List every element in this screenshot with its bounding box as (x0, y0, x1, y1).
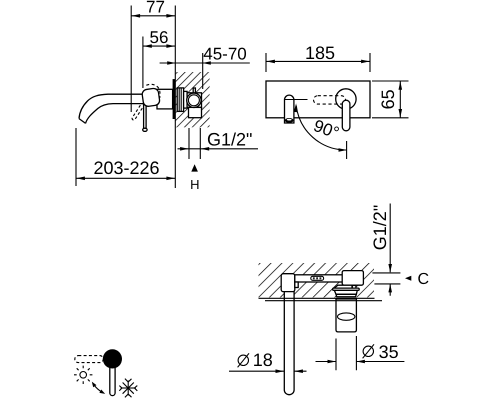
svg-text:35: 35 (379, 342, 399, 362)
extension line x=143 (56 dim) (142, 37, 144, 89)
spout tube (plan) (284, 292, 294, 395)
valve cartridge housing (187, 93, 201, 108)
spout (side view) (79, 94, 145, 118)
wall plate front (266, 81, 370, 118)
C dimension extension lines (372, 273, 400, 284)
lever base band 3 (336, 294, 356, 297)
bar detail plate (311, 276, 324, 280)
pictogram dashed handle (horizontal) (75, 356, 104, 363)
dimension D35 lines (316, 361, 405, 363)
lever end position tick (346, 141, 348, 159)
svg-text:56: 56 (150, 28, 169, 47)
body bar (plan) (295, 275, 345, 282)
handle box (plan) (342, 271, 363, 286)
svg-text:45-70: 45-70 (203, 45, 246, 64)
valve flange ring B (184, 91, 188, 108)
C arrow (405, 276, 411, 281)
valve lower body (189, 107, 202, 117)
handle flange circle (front) (336, 89, 356, 109)
dimension 185 extension lines (266, 53, 370, 72)
svg-text:H: H (190, 177, 199, 192)
dimension 56 line (143, 45, 175, 47)
hot supply marker triangle (191, 164, 198, 171)
dimension D18 lines (229, 370, 307, 372)
lever base band 2 (334, 290, 357, 294)
handle lever alternate position (dashed) (132, 103, 145, 121)
escutcheon plate (edge-on, dark) (173, 79, 176, 119)
svg-text:203-226: 203-226 (93, 158, 159, 178)
spout (front view) (285, 95, 294, 123)
wall finish line (thick) (265, 300, 382, 302)
spout outlet (dark) (285, 118, 294, 123)
pictogram lever (110, 360, 115, 396)
svg-text:G1/2": G1/2" (370, 205, 390, 250)
handle lever (solid, side) (144, 100, 147, 129)
pictogram knob (filled) (103, 349, 122, 368)
dimension 185 line (266, 60, 370, 62)
90 degree arc (296, 106, 346, 150)
wall hatching (side view) (176, 72, 210, 127)
svg-text:65: 65 (378, 89, 398, 109)
svg-text:G1/2": G1/2" (207, 129, 252, 149)
G1/2 extension lines (side view) (189, 128, 200, 159)
label D35 diameter symbol (363, 346, 373, 356)
spout elbow box (plan) (281, 274, 295, 292)
label D18 diameter symbol (238, 355, 248, 365)
svg-text:77: 77 (146, 0, 165, 16)
wall face line (thin) (259, 297, 375, 299)
extension line x=175 (wall face) (174, 6, 176, 189)
handle neck trapezoid (334, 285, 352, 288)
svg-text:18: 18 (253, 350, 273, 370)
dimension D35 extension lines (336, 336, 356, 370)
sun symbol (hot) (74, 366, 92, 384)
handle lever (front) (342, 100, 350, 131)
dimension 45-70 line (160, 62, 250, 64)
G1/2 dimension line (178, 148, 259, 150)
faucet body (side) (157, 89, 173, 109)
G1/2 leader (plan, rotated label) (389, 204, 391, 296)
dimension 65 line (399, 81, 401, 118)
dimension 65 extension lines (372, 81, 409, 118)
dimension 77 line (131, 15, 175, 17)
dimension 203-226 line (75, 128, 77, 186)
elbow notch (295, 282, 298, 288)
svg-text:90°: 90° (311, 116, 342, 143)
cartridge circles (187, 93, 201, 107)
extension line x=131 (77 dim, spout tip) (130, 6, 132, 113)
lever end cap (143, 128, 148, 131)
extension line x=202.7 (45-70 dim) (202, 53, 204, 89)
handle knob rotated position (dashed) (146, 84, 160, 98)
svg-text:185: 185 (305, 43, 335, 63)
lever base band 1 (333, 288, 360, 290)
rotation double arrow (94, 384, 103, 392)
svg-text:C: C (418, 271, 430, 288)
lever cylinder below wall (plan) (336, 299, 356, 332)
handle horizontal position (dashed, front) (314, 96, 346, 104)
valve flange ring A (177, 88, 183, 112)
lever cap ellipse (338, 313, 355, 320)
wall hatching (plan view) (259, 263, 375, 297)
valve top nub (193, 88, 195, 93)
snowflake symbol (cold) (119, 379, 137, 398)
handle knob (side) (142, 88, 161, 107)
spout dome chord and axis line (285, 99, 308, 101)
neck small step (352, 285, 356, 288)
